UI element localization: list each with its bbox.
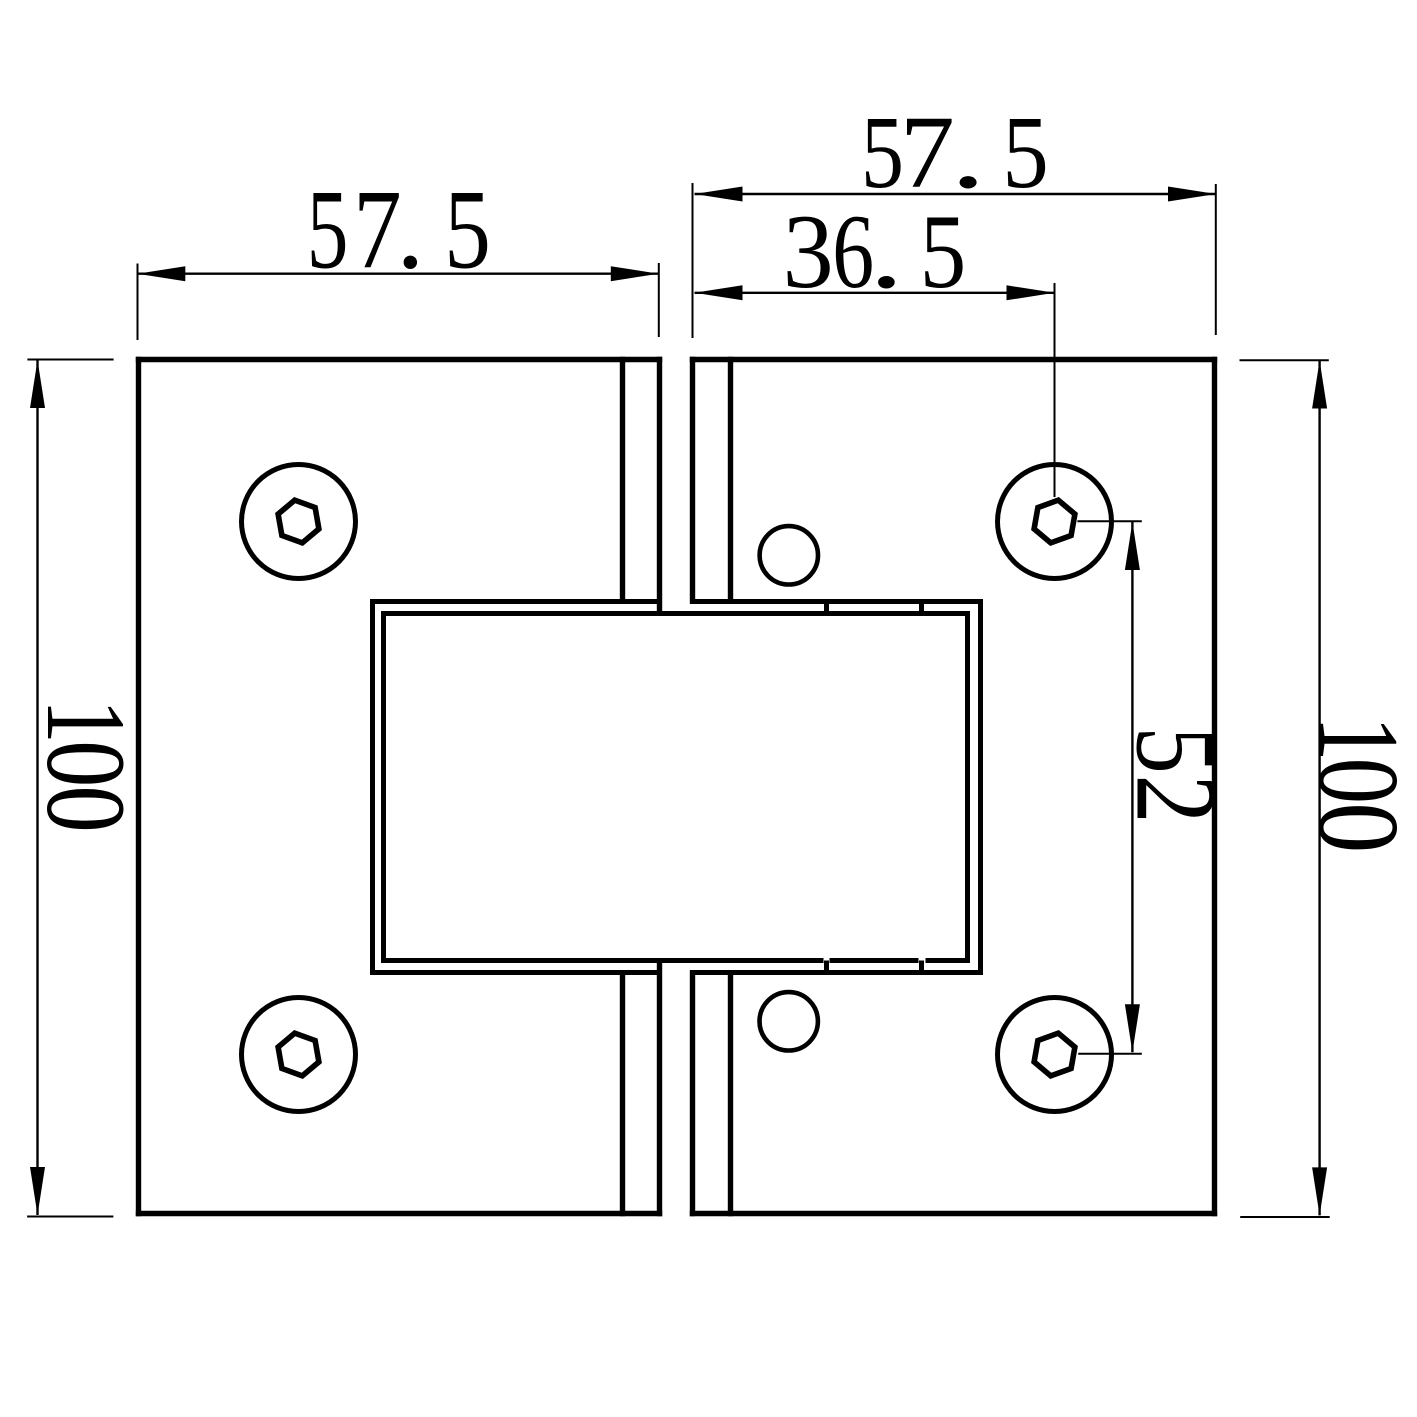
svg-text:0: 0 [1294,758,1417,804]
svg-text:.: . [869,193,904,310]
svg-text:5: 5 [1113,727,1240,774]
svg-text:5: 5 [444,168,491,293]
svg-text:2: 2 [1113,775,1240,824]
svg-text:.: . [396,168,424,293]
svg-text:7: 7 [353,168,402,293]
svg-text:5: 5 [307,168,349,293]
svg-text:0: 0 [23,740,148,787]
svg-text:5: 5 [920,193,967,310]
svg-text:5: 5 [1002,95,1048,210]
svg-text:0: 0 [23,785,148,832]
svg-text:3: 3 [783,193,834,310]
svg-text:1: 1 [23,699,148,744]
svg-text:1: 1 [1294,716,1417,762]
svg-text:0: 0 [1294,802,1417,853]
